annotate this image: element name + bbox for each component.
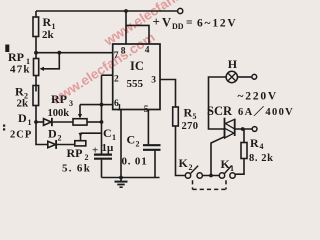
- svg-text:4: 4: [145, 46, 150, 56]
- node RP1 wiper tap: [57, 51, 61, 55]
- svg-text:8. 2k: 8. 2k: [249, 153, 274, 164]
- label K1: [221, 157, 235, 173]
- svg-text:5. 6k: 5. 6k: [62, 163, 91, 175]
- SCR (triac) V: [225, 118, 235, 139]
- svg-text:5: 5: [144, 105, 149, 115]
- label RP2 value: [62, 146, 91, 175]
- node RP3 output junction: [100, 120, 104, 124]
- svg-text:2k: 2k: [17, 98, 30, 110]
- potentiometer RP2: [75, 133, 102, 146]
- label RP3 value: [48, 92, 74, 119]
- watermark www.elecfans.com row 1: [48, 29, 158, 108]
- potentiometer RP1: [34, 53, 60, 92]
- svg-text:1: 1: [112, 133, 116, 142]
- svg-text:6~12V: 6~12V: [197, 18, 238, 30]
- terminal AC output bottom: [252, 127, 257, 132]
- label C2 value: [122, 133, 148, 168]
- terminal AC output top: [252, 74, 257, 79]
- svg-text:R: R: [184, 106, 193, 120]
- svg-text:2CP: 2CP: [10, 130, 32, 141]
- label D2: [48, 127, 62, 143]
- svg-text:7: 7: [114, 51, 119, 61]
- svg-text:1: 1: [117, 104, 122, 114]
- switch K1: [219, 166, 235, 179]
- svg-text:4: 4: [260, 142, 264, 151]
- node ground junction: [119, 176, 123, 180]
- label C1 value: [92, 126, 116, 157]
- svg-text:C: C: [103, 126, 112, 140]
- svg-text:IC: IC: [130, 59, 144, 73]
- svg-text:C: C: [127, 133, 136, 147]
- resistor R1: [33, 11, 39, 59]
- svg-text:3: 3: [151, 76, 156, 86]
- wire pin 3 to R5: [160, 80, 176, 108]
- label RP1 value: [8, 50, 31, 76]
- wire SCR gate: [211, 137, 225, 176]
- wire junction to pin 7: [36, 52, 113, 54]
- svg-text:+: +: [92, 145, 98, 157]
- wire bottom rail: [102, 177, 160, 179]
- wire lamp to SCR anode: [209, 77, 227, 129]
- node D1 anode junction: [34, 120, 38, 124]
- wire pin 1 to ground: [120, 110, 122, 178]
- svg-text:2: 2: [58, 134, 62, 143]
- svg-text:1: 1: [230, 164, 234, 173]
- svg-text:K: K: [179, 156, 189, 170]
- svg-text:H: H: [228, 57, 238, 71]
- diode D1: [36, 118, 73, 126]
- label R5 value: [182, 106, 199, 133]
- capacitor C2: [143, 145, 161, 177]
- svg-text:47k: 47k: [10, 64, 31, 76]
- wire pin 5 to C2: [147, 110, 149, 145]
- resistor R5: [173, 107, 186, 176]
- svg-text:0. 01: 0. 01: [122, 156, 148, 168]
- svg-text:2: 2: [136, 140, 140, 149]
- svg-text:1: 1: [28, 118, 32, 127]
- watermark www.elecfans.com row 2: [101, 0, 211, 49]
- label R1 value: [42, 15, 56, 41]
- svg-text:555: 555: [127, 78, 144, 90]
- svg-text:2: 2: [85, 153, 89, 162]
- mechanical linkage dashed: [193, 180, 227, 189]
- wire K2 to K1: [202, 175, 219, 177]
- node gate junction: [209, 174, 213, 178]
- svg-text:2: 2: [189, 163, 193, 172]
- ground: [115, 178, 128, 188]
- svg-text:SCR: SCR: [207, 104, 233, 118]
- label IC 555: [127, 59, 144, 90]
- label SCR rating: [207, 104, 294, 118]
- IC 555 timer: [113, 44, 160, 110]
- wire lamp to output terminal: [237, 76, 252, 78]
- svg-text:3: 3: [69, 99, 73, 108]
- label K2: [179, 156, 193, 172]
- node pin6/wiper junction: [100, 103, 104, 107]
- label R2 value: [15, 85, 29, 110]
- svg-text:R: R: [250, 136, 259, 150]
- svg-text:2k: 2k: [42, 29, 55, 41]
- resistor R2: [33, 86, 39, 123]
- svg-text:V: V: [162, 16, 171, 30]
- svg-text:RP: RP: [8, 50, 24, 64]
- svg-text:R: R: [43, 15, 52, 29]
- wire VDD top rail: [36, 10, 177, 12]
- wire pin 2: [102, 74, 113, 76]
- wire pin 4 to VDD: [126, 25, 149, 44]
- node R4 top junction: [241, 127, 245, 131]
- potentiometer RP3: [73, 105, 102, 126]
- lamp H: [226, 71, 237, 82]
- svg-text:1μ: 1μ: [102, 142, 115, 154]
- svg-text:~220V: ~220V: [238, 91, 279, 103]
- node R1/RP1 junction: [34, 51, 38, 55]
- svg-text:RP: RP: [67, 146, 83, 160]
- wire timing node vertical (pins 2,6 to C1): [101, 75, 103, 154]
- label D1: [10, 111, 32, 141]
- wire SCR cathode to terminal: [235, 128, 252, 130]
- svg-text:DD: DD: [172, 22, 184, 31]
- wire pin 6: [102, 104, 113, 106]
- wire pin 8 to VDD: [125, 11, 127, 44]
- switch K2: [185, 166, 202, 179]
- svg-text:270: 270: [182, 121, 199, 132]
- node pin8 rail junction: [124, 9, 128, 13]
- label +VDD supply: [153, 14, 238, 31]
- resistor R4: [235, 129, 247, 174]
- terminal +VDD: [178, 8, 183, 13]
- svg-text:K: K: [221, 157, 231, 171]
- svg-text:8: 8: [121, 47, 126, 57]
- svg-text:=: =: [186, 17, 193, 29]
- svg-text:+: +: [153, 14, 160, 29]
- svg-text:R: R: [15, 85, 24, 99]
- svg-text:2: 2: [114, 75, 119, 85]
- svg-text:5: 5: [193, 112, 197, 121]
- capacitor C1 (electrolytic): [94, 155, 112, 178]
- svg-text:RP: RP: [51, 92, 67, 106]
- svg-text:100k: 100k: [48, 108, 70, 119]
- svg-text:6A／400V: 6A／400V: [238, 105, 294, 118]
- label R4 value: [249, 136, 274, 164]
- scan edge marks: [3, 45, 9, 131]
- svg-text:D: D: [18, 111, 27, 125]
- svg-text:D: D: [48, 127, 57, 141]
- diode D2: [36, 122, 75, 149]
